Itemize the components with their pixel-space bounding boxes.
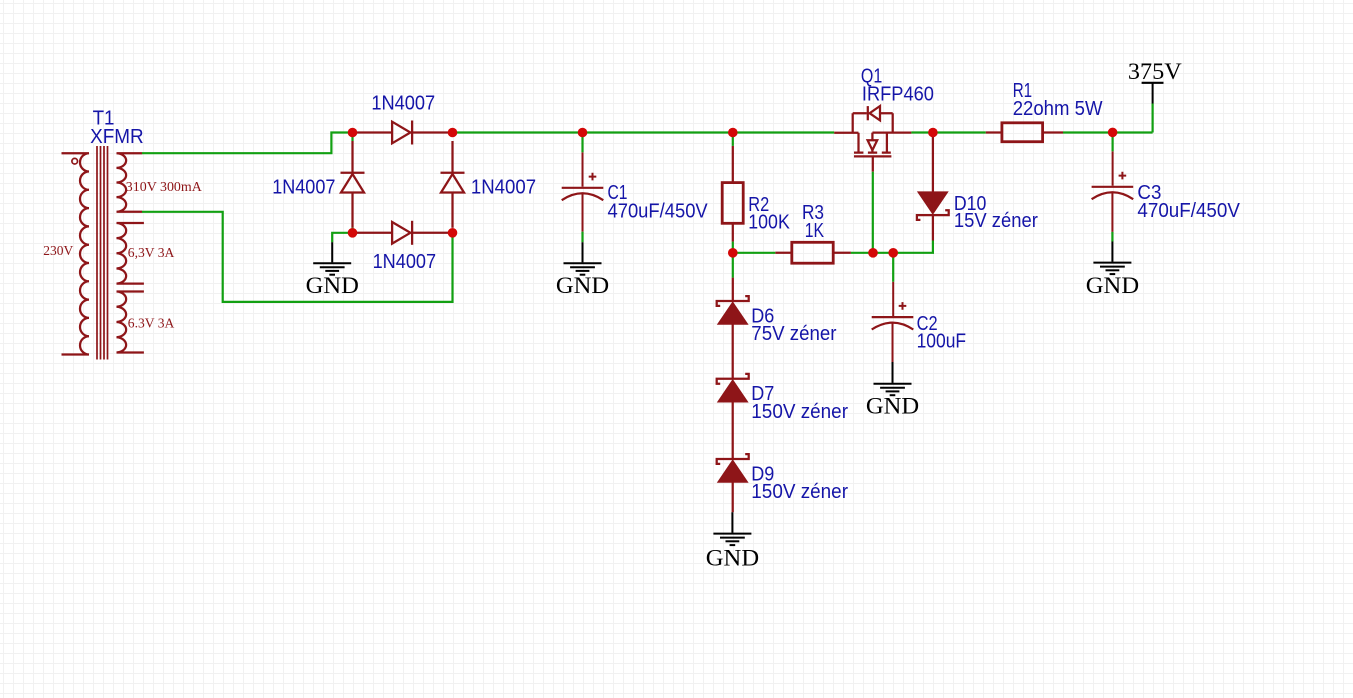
mosfet Q1 bbox=[834, 106, 911, 172]
wire R2 node to R3 bbox=[733, 252, 776, 254]
svg-text:GND: GND bbox=[706, 546, 759, 571]
zener D10 bbox=[917, 137, 949, 241]
wire C3 top bbox=[1111, 133, 1113, 152]
junction node output bbox=[1108, 128, 1118, 138]
junction node B2 bbox=[448, 228, 458, 238]
wire R3 to gate node to C2 node bbox=[851, 252, 893, 254]
svg-text:GND: GND bbox=[866, 394, 919, 419]
wire output node up bbox=[1151, 104, 1153, 133]
wire Q1 source to D10 node bbox=[911, 131, 933, 133]
wire C2 node to D10 bottom bbox=[893, 241, 933, 253]
zener D6 bbox=[717, 278, 749, 379]
svg-text:310V 300mA: 310V 300mA bbox=[126, 180, 203, 195]
wire xfmr-top to bridge bbox=[142, 133, 353, 154]
power flag 375V bbox=[1142, 83, 1164, 104]
resistor R3 bbox=[775, 242, 851, 263]
capacitor C2 bbox=[872, 282, 914, 362]
svg-text:150V zéner: 150V zéner bbox=[751, 401, 848, 423]
svg-text:GND: GND bbox=[1086, 273, 1139, 298]
svg-text:15V zéner: 15V zéner bbox=[954, 210, 1038, 232]
wire R2 node to D6 bbox=[732, 253, 734, 278]
svg-text:375V: 375V bbox=[1128, 59, 1182, 84]
wire xfmr-sec1-bottom to bridge bottom-right bbox=[142, 212, 453, 302]
ground C1 bbox=[564, 242, 602, 275]
wire R2 bottom bbox=[732, 242, 734, 253]
svg-text:1N4007: 1N4007 bbox=[272, 176, 335, 198]
svg-text:100K: 100K bbox=[748, 212, 790, 234]
wire bridge bottom-left to ground bbox=[332, 233, 352, 242]
diode D2 (bridge left, 1N4007) bbox=[341, 141, 365, 228]
diode D4 (bridge bottom, 1N4007) bbox=[357, 221, 448, 245]
svg-text:GND: GND bbox=[306, 273, 359, 298]
wire R1 to output node bbox=[1063, 131, 1153, 133]
svg-text:75V zéner: 75V zéner bbox=[751, 323, 837, 345]
svg-text:1N4007: 1N4007 bbox=[373, 251, 437, 273]
svg-text:100uF: 100uF bbox=[917, 331, 967, 353]
wire stubs bridge left bbox=[351, 133, 353, 233]
resistor R1 bbox=[986, 123, 1063, 142]
svg-text:470uF/450V: 470uF/450V bbox=[1137, 200, 1240, 222]
ground D9 bbox=[713, 512, 751, 545]
wire C1 top bbox=[581, 133, 583, 153]
resistor R2 bbox=[722, 146, 743, 242]
svg-text:IRFP460: IRFP460 bbox=[862, 84, 934, 106]
junction node R2 top bbox=[728, 128, 738, 138]
svg-text:GND: GND bbox=[556, 273, 609, 298]
zener D9 bbox=[717, 454, 749, 512]
wire Q1 gate down bbox=[872, 172, 874, 253]
ground bridge bbox=[313, 242, 351, 275]
junction node R2 bottom bbox=[728, 248, 738, 258]
junction node C2 top bbox=[888, 248, 898, 258]
diode D3 (bridge right, 1N4007) bbox=[441, 141, 465, 228]
junction node gate bbox=[868, 248, 878, 258]
svg-text:1K: 1K bbox=[805, 220, 825, 242]
junction node B bbox=[448, 128, 458, 138]
junction node A bbox=[348, 128, 358, 138]
svg-text:150V zéner: 150V zéner bbox=[751, 481, 848, 503]
wire rail bridge to C1 to R2 to Q1 bbox=[453, 131, 835, 133]
capacitor C3 bbox=[1092, 151, 1134, 232]
junction node A2 bbox=[348, 228, 358, 238]
junction node D10 top bbox=[928, 128, 938, 138]
svg-text:1N4007: 1N4007 bbox=[371, 92, 435, 114]
wire C2 top bbox=[892, 253, 894, 282]
ground C3 bbox=[1093, 242, 1131, 275]
wire R2 top bbox=[732, 133, 734, 146]
transformer T1 bbox=[62, 146, 144, 360]
svg-text:1N4007: 1N4007 bbox=[471, 176, 536, 198]
svg-text:470uF/450V: 470uF/450V bbox=[608, 201, 709, 223]
diode D1 (bridge top, 1N4007) bbox=[357, 121, 448, 145]
wire D10 node to R1 bbox=[933, 131, 986, 133]
wire C3 bottom bbox=[1111, 232, 1113, 242]
wire C1 bottom bbox=[581, 232, 583, 243]
zener D7 bbox=[717, 374, 749, 459]
capacitor C1 bbox=[562, 152, 604, 231]
svg-text:6.3V 3A: 6.3V 3A bbox=[128, 317, 175, 332]
junction node C1 top bbox=[578, 128, 588, 138]
svg-text:6,3V 3A: 6,3V 3A bbox=[128, 246, 175, 261]
ground C2 bbox=[874, 362, 912, 395]
svg-text:XFMR: XFMR bbox=[90, 126, 144, 148]
svg-text:230V: 230V bbox=[43, 244, 73, 259]
svg-text:22ohm 5W: 22ohm 5W bbox=[1013, 98, 1103, 120]
